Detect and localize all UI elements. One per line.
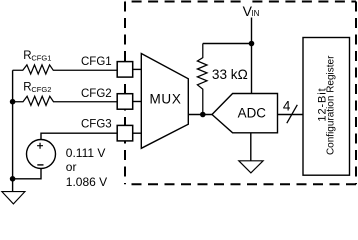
wire MUX output to ADC [188, 114, 212, 116]
wire CFG2 pad to mux [133, 101, 142, 103]
label RCFG2 [23, 82, 51, 94]
svg-text:CFG2: CFG2 [31, 85, 51, 94]
IC boundary (dashed box) [125, 2, 356, 185]
junction MUX-out/33k [200, 112, 206, 118]
junction source/rail [10, 176, 16, 182]
wire ADC bottom to ground [250, 133, 252, 161]
pad CFG3 [117, 125, 133, 140]
resistor 33k [197, 44, 207, 115]
ground GND2 [239, 161, 263, 173]
svg-text:IN: IN [251, 9, 259, 18]
adc U-ADC [212, 94, 278, 133]
svg-text:Configuration Register: Configuration Register [326, 55, 337, 155]
wire CFG3 to source top [41, 133, 117, 139]
label RCFG1 [23, 50, 51, 62]
svg-text:ADC: ADC [238, 106, 267, 121]
svg-text:CFG3: CFG3 [81, 119, 112, 131]
wire left rail [12, 70, 14, 191]
wire ADC to register (bus) [278, 114, 304, 116]
svg-text:33 kΩ: 33 kΩ [212, 67, 248, 82]
source V1 [27, 140, 56, 169]
svg-text:R: R [23, 82, 31, 94]
svg-text:MUX: MUX [149, 92, 181, 107]
wire source bottom to rail [13, 169, 41, 179]
bus width slash [287, 105, 298, 123]
junction RCFG2/rail [10, 99, 16, 105]
ground GND1 [2, 192, 25, 204]
wire CFG1 pad to mux [133, 68, 142, 70]
wire branch to 33k resistor [203, 43, 252, 45]
svg-text:CFG2: CFG2 [81, 88, 112, 100]
wire CFG3 pad to mux [133, 132, 142, 134]
svg-text:CFG1: CFG1 [31, 53, 51, 62]
wire VIN vertical [251, 18, 253, 94]
svg-text:1.086 V: 1.086 V [66, 175, 107, 189]
svg-text:CFG1: CFG1 [81, 56, 112, 68]
svg-text:4: 4 [283, 98, 291, 113]
register U-REG [303, 38, 350, 176]
pad CFG1 [117, 62, 133, 78]
svg-text:0.111 V: 0.111 V [66, 146, 106, 160]
resistor RCFG2 with wire from rail to pad [13, 96, 118, 105]
svg-text:R: R [23, 50, 31, 62]
junction VIN/33k branch [249, 41, 255, 47]
mux U-MUX [141, 54, 188, 149]
svg-text:or: or [66, 160, 77, 174]
pad CFG2 [117, 94, 133, 110]
node VIN label [243, 3, 260, 19]
label source values [66, 146, 107, 189]
resistor RCFG1 with wire from rail to pad [13, 65, 118, 74]
